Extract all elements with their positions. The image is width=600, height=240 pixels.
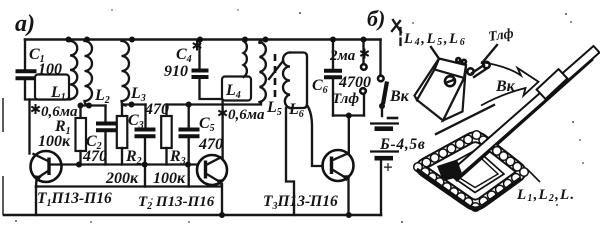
- svg-text:2ма: 2ма: [329, 48, 356, 64]
- svg-text:200к: 200к: [105, 170, 139, 187]
- svg-text:910: 910: [164, 63, 188, 80]
- svg-text:+: +: [383, 158, 393, 177]
- svg-text:L4,L5,L6: L4,L5,L6: [403, 31, 466, 48]
- svg-text:а): а): [15, 11, 35, 37]
- svg-text:100к: 100к: [38, 133, 71, 150]
- svg-text:0,6ма: 0,6ма: [228, 107, 265, 123]
- svg-text:4700: 4700: [338, 74, 371, 91]
- svg-text:Вк: Вк: [389, 88, 410, 105]
- svg-text:Вк: Вк: [495, 78, 516, 95]
- svg-text:L1,L2,L.: L1,L2,L.: [516, 187, 575, 204]
- svg-text:Тлф: Тлф: [332, 91, 359, 107]
- svg-text:100к: 100к: [153, 170, 186, 187]
- svg-text:470: 470: [144, 101, 169, 118]
- svg-text:470: 470: [82, 148, 107, 165]
- svg-text:Б-4,5в: Б-4,5в: [379, 136, 426, 153]
- svg-text:100: 100: [38, 61, 62, 78]
- svg-text:470: 470: [198, 136, 223, 153]
- svg-text:б): б): [367, 6, 385, 31]
